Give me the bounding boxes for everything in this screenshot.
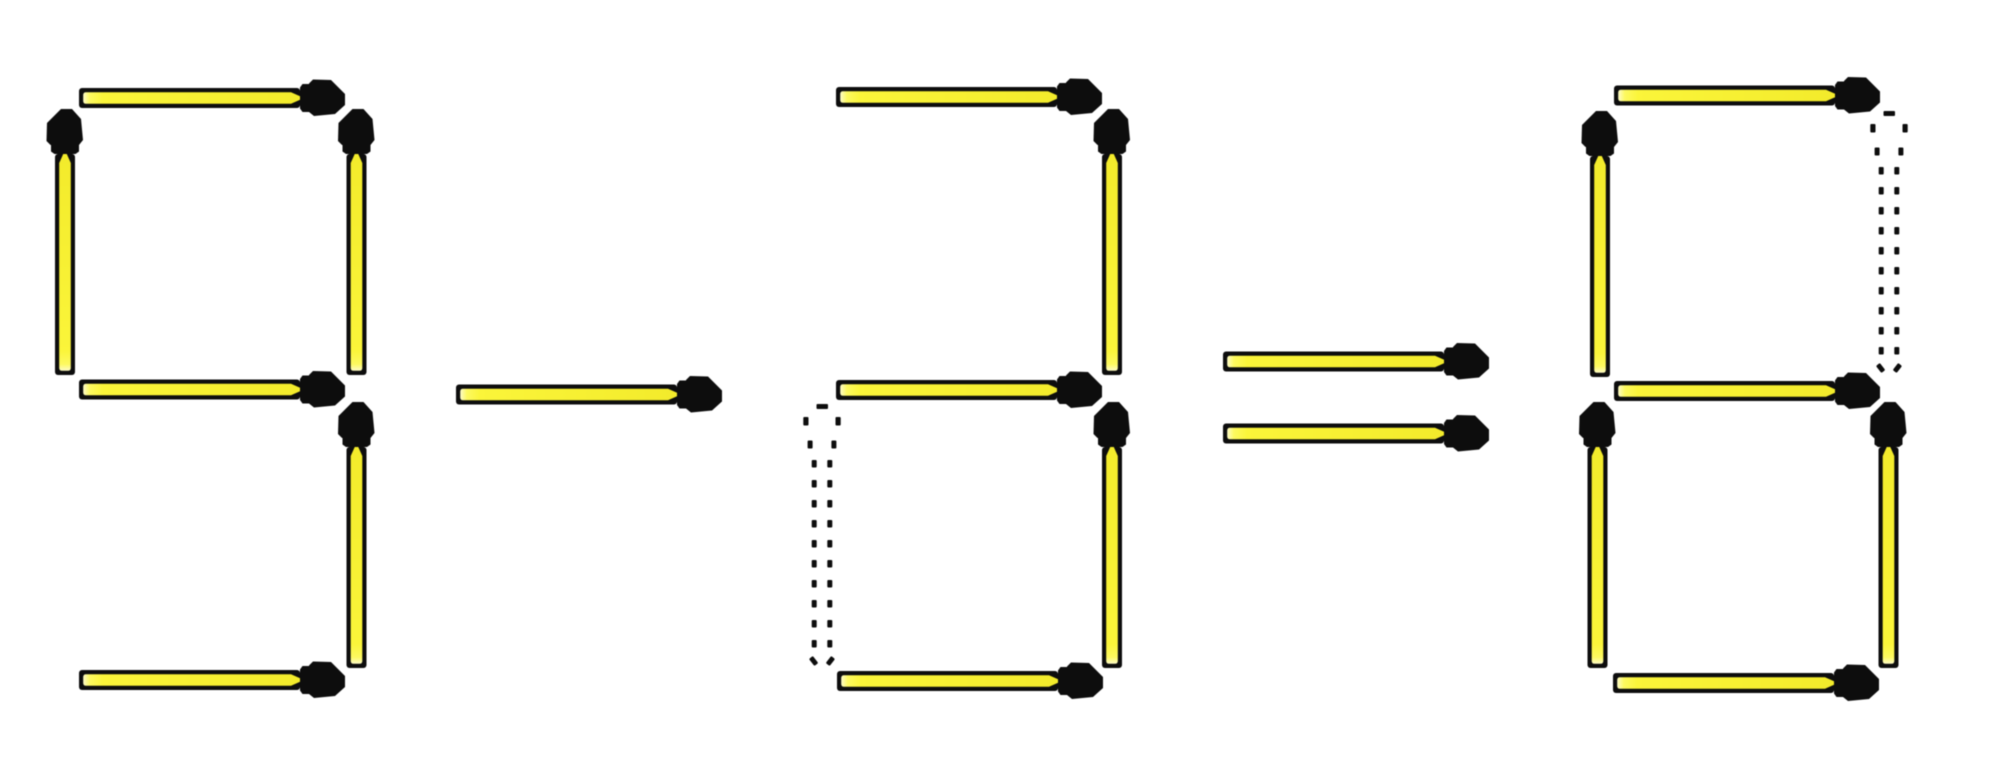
digit 2 (numeral 3) bbox=[803, 79, 1130, 700]
match D1 segment C (bottom-right) bbox=[338, 402, 375, 668]
match D2 segment C (bottom-right) bbox=[1094, 402, 1131, 668]
match D3 segment F (top-left) bbox=[1582, 111, 1619, 377]
match D2 segment A (top) bbox=[836, 79, 1102, 116]
match D2 segment B (top-right) bbox=[1094, 109, 1131, 375]
digit 1 (numeral 9) bbox=[47, 80, 375, 699]
match D3 segment G (middle) bbox=[1614, 373, 1880, 410]
equals sign bottom match bbox=[1223, 415, 1489, 452]
match D3 segment A (top) bbox=[1614, 77, 1880, 114]
match D1 segment G (middle) bbox=[79, 371, 345, 408]
match D3 segment D (bottom) bbox=[1613, 665, 1879, 702]
match D1 segment F (top-left) bbox=[47, 109, 84, 375]
match D2 segment D (bottom) bbox=[837, 663, 1103, 700]
match D1 segment B (top-right) bbox=[338, 109, 375, 375]
match D3 segment C (bottom-right) bbox=[1870, 402, 1907, 668]
equals sign top match bbox=[1223, 343, 1489, 380]
ghost D2 segment E (dashed removed match, bottom-left) bbox=[803, 404, 840, 666]
match D1 segment A (top) bbox=[79, 80, 345, 117]
minus sign match bbox=[456, 376, 722, 413]
match D1 segment D (bottom) bbox=[79, 662, 345, 699]
match D3 segment E (bottom-left) bbox=[1579, 402, 1616, 668]
match D2 segment G (middle) bbox=[836, 372, 1102, 409]
digit 3 (numeral 6) bbox=[1579, 77, 1908, 701]
ghost D3 segment B (dashed removed match, top-right) bbox=[1870, 111, 1907, 373]
